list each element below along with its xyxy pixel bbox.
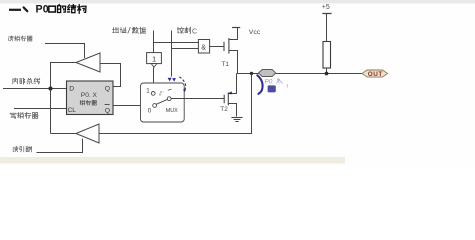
svg-text:C: C bbox=[192, 27, 197, 35]
and-gate U5 (&) bbox=[198, 40, 209, 54]
svg-text:OUT: OUT bbox=[368, 71, 383, 78]
wire CL input bbox=[14, 108, 67, 110]
wire control C vertical bbox=[171, 31, 173, 77]
svg-text:1: 1 bbox=[146, 88, 150, 95]
label 写锁存器 (write latch) bbox=[10, 112, 38, 118]
label 读锁存器 (read latch) bbox=[9, 36, 33, 41]
svg-text:MUX: MUX bbox=[166, 108, 178, 114]
transistor T1 (NMOS) bbox=[222, 28, 238, 74]
svg-text:0: 0 bbox=[148, 108, 152, 115]
svg-text:CL: CL bbox=[68, 107, 77, 114]
buffer U7 read-pin tri-state bbox=[76, 124, 99, 143]
label 地址/数据 (address/data) bbox=[113, 27, 146, 33]
node resistor junction bbox=[325, 72, 329, 76]
wire latch Q-bar to MUX input 0 bbox=[113, 105, 153, 107]
node read-pin feedback junction bbox=[250, 72, 253, 75]
transistor T2 (NMOS) bbox=[220, 74, 236, 117]
svg-text:T2: T2 bbox=[220, 106, 228, 113]
mux dashed alternate position bbox=[160, 92, 164, 96]
node internal-bus junction bbox=[48, 86, 52, 90]
svg-text:+5: +5 bbox=[322, 4, 330, 11]
wire and-gate input from control C bbox=[172, 48, 199, 50]
mux switch arm bbox=[156, 99, 167, 104]
latch U2 P0.X 锁存器 bbox=[67, 81, 114, 115]
wire read-pin control line bbox=[37, 139, 83, 153]
power +5 terminal bbox=[322, 4, 332, 14]
label 控制C (control C) bbox=[177, 27, 197, 35]
annotation control-C blue arrows bbox=[168, 77, 187, 93]
annotation P0.X (blue handwriting) bbox=[257, 75, 288, 94]
wire read-latch control line bbox=[45, 44, 85, 59]
wire output line to pin bbox=[237, 73, 363, 75]
wire +5 to resistor bbox=[326, 14, 328, 42]
port OUT bbox=[362, 70, 388, 78]
buffer U3 read-latch tri-state bbox=[76, 53, 100, 72]
svg-text:Vcc: Vcc bbox=[249, 29, 261, 36]
svg-text:Q: Q bbox=[105, 108, 110, 115]
svg-text:1: 1 bbox=[152, 55, 156, 64]
wire buffer U3 output to internal bus bbox=[51, 63, 77, 134]
inverter U4 (1) bbox=[147, 53, 162, 68]
wire buffer U7 output to internal bus bbox=[51, 133, 77, 135]
page background bbox=[0, 0, 475, 166]
pin P0.X pad bbox=[259, 70, 276, 77]
wire resistor to output line bbox=[326, 68, 328, 74]
svg-text:P0: P0 bbox=[36, 4, 49, 16]
wire MUX output to T2 gate bbox=[171, 98, 224, 100]
svg-text:D: D bbox=[69, 86, 74, 93]
svg-text:T1: T1 bbox=[222, 61, 230, 68]
wire read-pin feedback bbox=[99, 74, 252, 134]
wire internal bus bbox=[3, 88, 67, 90]
svg-text:&: & bbox=[201, 44, 206, 51]
wire buffer U3 input from latch Q bbox=[100, 64, 121, 87]
label 内部总线 (internal bus) bbox=[13, 78, 40, 84]
label 读引脚 (read pin) bbox=[13, 146, 32, 152]
mux U6 MUX bbox=[141, 83, 185, 122]
wire and-gate output to T1 gate bbox=[210, 46, 225, 48]
ground bbox=[231, 118, 242, 122]
svg-text:P0. X: P0. X bbox=[81, 92, 98, 99]
wire inverter output to MUX input 1 bbox=[153, 67, 155, 91]
power Vcc terminal bbox=[232, 27, 240, 29]
resistor R1 pull-up bbox=[323, 42, 331, 69]
title 一、P0口的结构 bbox=[9, 4, 86, 16]
wire and-gate input from address/data bbox=[154, 42, 199, 44]
wire address/data line bbox=[153, 31, 155, 53]
svg-text:Q: Q bbox=[105, 85, 110, 92]
